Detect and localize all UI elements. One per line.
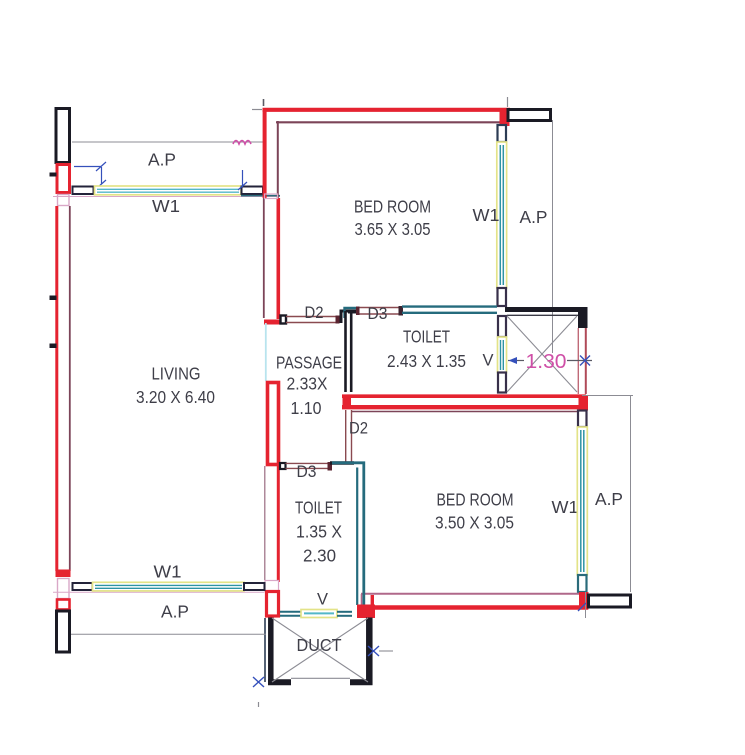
wall: red segment right of V window bbox=[357, 605, 375, 619]
door D3 (toilet1) opening lines bbox=[357, 307, 402, 309]
svg-text:1.30: 1.30 bbox=[526, 351, 567, 373]
wall: bottom-right black box bbox=[589, 595, 631, 607]
window V toilet2: cyan glazing bbox=[304, 612, 334, 614]
duct cross diagonal 1 bbox=[272, 618, 368, 682]
tick: D2 corner black square bbox=[281, 316, 287, 324]
wall: duct right black wall bbox=[366, 618, 373, 686]
revision squiggle (magenta) bbox=[233, 141, 251, 145]
wire: thin pink face line across lower window row bbox=[53, 591, 264, 593]
svg-text:V: V bbox=[483, 351, 495, 370]
wall: left column black segment (bottom) bbox=[57, 611, 70, 652]
wire: light cyan door edge line below D2 bbox=[265, 323, 267, 381]
wire: thin maroon edge line below red box bbox=[264, 466, 266, 580]
wall: black line at toilet2 top-right bbox=[330, 461, 354, 464]
wall: duct left navy outer line bbox=[264, 618, 266, 682]
DUCT-GROUP bbox=[253, 618, 393, 708]
wall: bedroom1 inner maroon top line bbox=[276, 121, 506, 123]
wall: bedroom2 bottom inner pink line bbox=[361, 593, 586, 595]
window V toilet1: yellow frame bbox=[498, 337, 507, 373]
svg-text:A.P: A.P bbox=[148, 150, 176, 170]
svg-text:PASSAGE: PASSAGE bbox=[276, 353, 342, 373]
door D3 cap maroon bbox=[328, 462, 333, 471]
dimension: blue tick right of duct bbox=[368, 646, 393, 656]
wall: left column red crossbar bbox=[56, 570, 71, 578]
BOTTOMLEFT-GROUP bbox=[53, 562, 266, 635]
wire: A.P right boundary thin vertical (top) bbox=[552, 120, 554, 353]
window W1 right end cap (black) bbox=[242, 187, 264, 195]
window V toilet1: cyan glazing bbox=[500, 340, 502, 370]
wall: toilet1 left black double wall bbox=[344, 311, 347, 392]
wire: A.P top boundary thin line bbox=[72, 141, 263, 143]
LEFT-WALL-GROUP bbox=[50, 109, 281, 653]
window V toilet2: right teal bars bbox=[337, 611, 352, 613]
wire: thin pink face line across upper window row bbox=[53, 196, 280, 198]
tick: gray vertical at window bottom bbox=[585, 592, 587, 618]
svg-text:W1: W1 bbox=[152, 196, 180, 216]
door D2 (passage) opening lines bbox=[286, 316, 337, 318]
wall: duct left black wall bbox=[268, 618, 274, 686]
window W1 bedroom2: yellow frame bbox=[577, 427, 587, 575]
tick: gray stub left of top wall bbox=[252, 109, 262, 111]
wire: A.P top boundary line (bottom right) bbox=[582, 395, 633, 397]
tick: blue mark near bottom-right cap bbox=[578, 603, 586, 611]
wall: shaft right black vertical (upper) bbox=[578, 307, 588, 328]
wall: teal corner at toilet1 left bbox=[345, 308, 358, 318]
shaft cross diagonal 1 bbox=[507, 316, 577, 392]
window W1 bedroom1: top cap (dark) bbox=[498, 125, 507, 142]
window W1 bedroom1: cyan double glazing bbox=[499, 145, 501, 285]
wire: A.P bottom boundary thin line bbox=[71, 633, 266, 635]
tick: left wall black mark 2 bbox=[50, 296, 57, 301]
svg-text:D2: D2 bbox=[305, 304, 324, 322]
window W1 left end cap (black) bbox=[73, 187, 94, 195]
svg-text:A.P: A.P bbox=[595, 489, 623, 509]
window W1 bottom: cyan double glazing bbox=[95, 584, 242, 586]
TOPLEFT-GROUP bbox=[72, 142, 280, 407]
door D2 (bedroom2) jamb lines bbox=[345, 410, 347, 462]
svg-text:TOILET: TOILET bbox=[403, 327, 450, 347]
dimension: blue tick at window right end bbox=[238, 170, 247, 190]
svg-text:LIVING: LIVING bbox=[152, 364, 201, 384]
window W1 bedroom1: bottom cap (dark) bbox=[498, 288, 507, 306]
svg-text:3.20 X 6.40: 3.20 X 6.40 bbox=[136, 387, 215, 407]
TOILET1-GROUP bbox=[286, 304, 507, 393]
wall: bedroom1 left outer red (upper part) bbox=[263, 108, 267, 198]
tick: small mark below duct bbox=[258, 702, 260, 707]
door D3 (toilet2) opening lines bbox=[286, 462, 329, 464]
wall: black jog between D2 and toilet1 wall bbox=[341, 311, 348, 323]
door D3 cap maroon left bbox=[356, 307, 360, 316]
wall: duct bottom left black L bbox=[268, 679, 291, 685]
window gap pink outline at living/bed1 wall junction bbox=[265, 194, 278, 199]
svg-text:1.10: 1.10 bbox=[291, 398, 322, 418]
door D2 cap maroon bbox=[336, 316, 340, 324]
window W1 bottom horizontal: yellow frame bbox=[93, 582, 245, 591]
svg-text:V: V bbox=[317, 590, 329, 609]
wall: red wall left end cap bbox=[343, 395, 352, 410]
svg-text:BED ROOM: BED ROOM bbox=[354, 197, 431, 217]
wall: living left inner maroon line bbox=[69, 206, 71, 571]
wall: toilet2 left red line bbox=[277, 466, 280, 582]
wire: duct bottom opening thin line bbox=[291, 677, 350, 679]
window V toilet1: top cap dark bbox=[498, 316, 506, 337]
svg-text:2.43 X 1.35: 2.43 X 1.35 bbox=[387, 351, 466, 371]
shaft cross diagonal 2 bbox=[507, 316, 577, 392]
window V toilet1: bottom cap dark bbox=[498, 373, 506, 393]
wall: passage left red box bbox=[268, 383, 279, 465]
wall: living right red line (lower part) bbox=[276, 198, 280, 319]
PASSAGE-GROUP bbox=[265, 323, 342, 582]
svg-text:1.35 X: 1.35 X bbox=[296, 522, 342, 542]
svg-text:BED ROOM: BED ROOM bbox=[437, 490, 514, 510]
tick: gray vertical above top wall left bbox=[263, 99, 265, 106]
wall: bedroom2 inner maroon top line bbox=[352, 411, 577, 413]
wall: shaft top black band bbox=[505, 307, 588, 312]
window gap: left wall upper (pink outline) bbox=[58, 195, 70, 206]
window W1 bottom right end cap (black) bbox=[244, 583, 265, 590]
svg-text:W1: W1 bbox=[473, 205, 500, 225]
wall: top-right black box bbox=[508, 110, 551, 121]
wall: toilet2 bottom-left red box bbox=[267, 592, 279, 617]
tick: gray vertical above top wall right bbox=[507, 97, 509, 107]
wall: left column red segment bottom bbox=[57, 600, 70, 610]
dimension 1.30: left arrow line bbox=[508, 360, 524, 362]
svg-text:D3: D3 bbox=[368, 305, 388, 323]
window W1 bottom left end cap (black) bbox=[73, 583, 93, 590]
window W1 top-left horizontal: yellow frame bbox=[95, 186, 242, 195]
window W1 bedroom2: teal double glazing bbox=[580, 430, 582, 572]
SHAFT-GROUP bbox=[505, 307, 592, 394]
BEDROOM2-GROUP bbox=[342, 395, 633, 619]
duct cross diagonal 2 bbox=[272, 618, 368, 682]
window W1 top-left: cyan double glazing lines bbox=[97, 188, 239, 190]
wall: red wall right end cap bbox=[579, 396, 589, 411]
svg-text:W1: W1 bbox=[552, 497, 579, 517]
wall: bedroom1 right red jog above window bbox=[500, 112, 510, 127]
svg-text:D3: D3 bbox=[297, 463, 317, 481]
wall: living left red line (outer) bbox=[55, 206, 58, 571]
svg-text:2.30: 2.30 bbox=[303, 546, 336, 566]
svg-text:TOILET: TOILET bbox=[295, 498, 342, 518]
wall: shaft top inner thin line bbox=[507, 314, 583, 316]
wall: bedroom1 top red bbox=[263, 108, 511, 112]
wall: red double wall above bedroom2, top line bbox=[342, 394, 586, 398]
wall: D2 corner red bar bbox=[264, 320, 281, 325]
dimension 1.30: right blue tick bbox=[580, 356, 590, 366]
wall: toilet2 right teal outer L bbox=[332, 463, 364, 608]
svg-text:A.P: A.P bbox=[520, 207, 548, 227]
wall: duct bottom right black L bbox=[350, 679, 373, 685]
window W1 bedroom2: top cap dark bbox=[578, 411, 587, 428]
tick: D3 corner black square bbox=[280, 463, 286, 469]
svg-text:A.P: A.P bbox=[161, 602, 189, 622]
dimension 1.30: left arrowhead blue bbox=[509, 357, 518, 364]
wire: teal sill line right of window bbox=[241, 195, 280, 197]
svg-text:D2: D2 bbox=[349, 420, 368, 438]
TOILET2-GROUP bbox=[265, 462, 375, 618]
window V toilet2: left teal bars bbox=[280, 611, 301, 613]
svg-text:2.33X: 2.33X bbox=[287, 374, 328, 394]
svg-text:DUCT: DUCT bbox=[297, 635, 342, 655]
wire: A.P right boundary thin vertical (bottom) bbox=[630, 396, 632, 593]
window gap pink outline above toilet2 red box bbox=[265, 581, 279, 593]
dimension: blue wall-offset arrow top-left bbox=[74, 162, 106, 188]
wall: toilet2 right teal inner line bbox=[356, 468, 358, 606]
wall: left column red segment below black bbox=[57, 165, 70, 193]
wall: shaft right thin red lines (lower) bbox=[577, 328, 579, 394]
window W1 bedroom1 right vertical: yellow frame bbox=[497, 142, 507, 288]
svg-text:3.65 X 3.05: 3.65 X 3.05 bbox=[355, 219, 431, 239]
wall: toilet1 top teal double bbox=[402, 305, 497, 307]
tick: left wall black mark 1 bbox=[50, 173, 57, 177]
wall: pink-red step connector bbox=[361, 594, 363, 605]
svg-text:3.50 X 3.05: 3.50 X 3.05 bbox=[435, 513, 514, 533]
dimension 1.30: right line bbox=[567, 360, 592, 362]
window V toilet2: yellow frame bbox=[301, 610, 337, 618]
tick: left wall black mark 3 bbox=[50, 344, 57, 349]
door D3 cap right dark bbox=[399, 306, 404, 316]
dimension: blue tick bottom-left of duct bbox=[253, 677, 264, 687]
wall: red double wall above bedroom2, bottom line bbox=[342, 405, 588, 409]
wall: bedroom2 bottom red line bbox=[372, 605, 588, 609]
window W1 bedroom2: bottom cap dark teal bbox=[578, 575, 587, 592]
BEDROOM1-GROUP bbox=[233, 97, 553, 353]
wall: bedroom2 bottom-right red cap bbox=[579, 592, 589, 610]
wall: black corner cap of toilet1 top bbox=[348, 310, 358, 314]
svg-text:W1: W1 bbox=[154, 562, 182, 582]
window gap: left wall lower (pink outline) bbox=[58, 579, 70, 599]
wall: bedroom1 left inner maroon (upper part) bbox=[277, 121, 279, 198]
wall: left outer column black segment (top) bbox=[56, 109, 70, 163]
wall: living right inner maroon (lower part) bbox=[263, 198, 265, 318]
